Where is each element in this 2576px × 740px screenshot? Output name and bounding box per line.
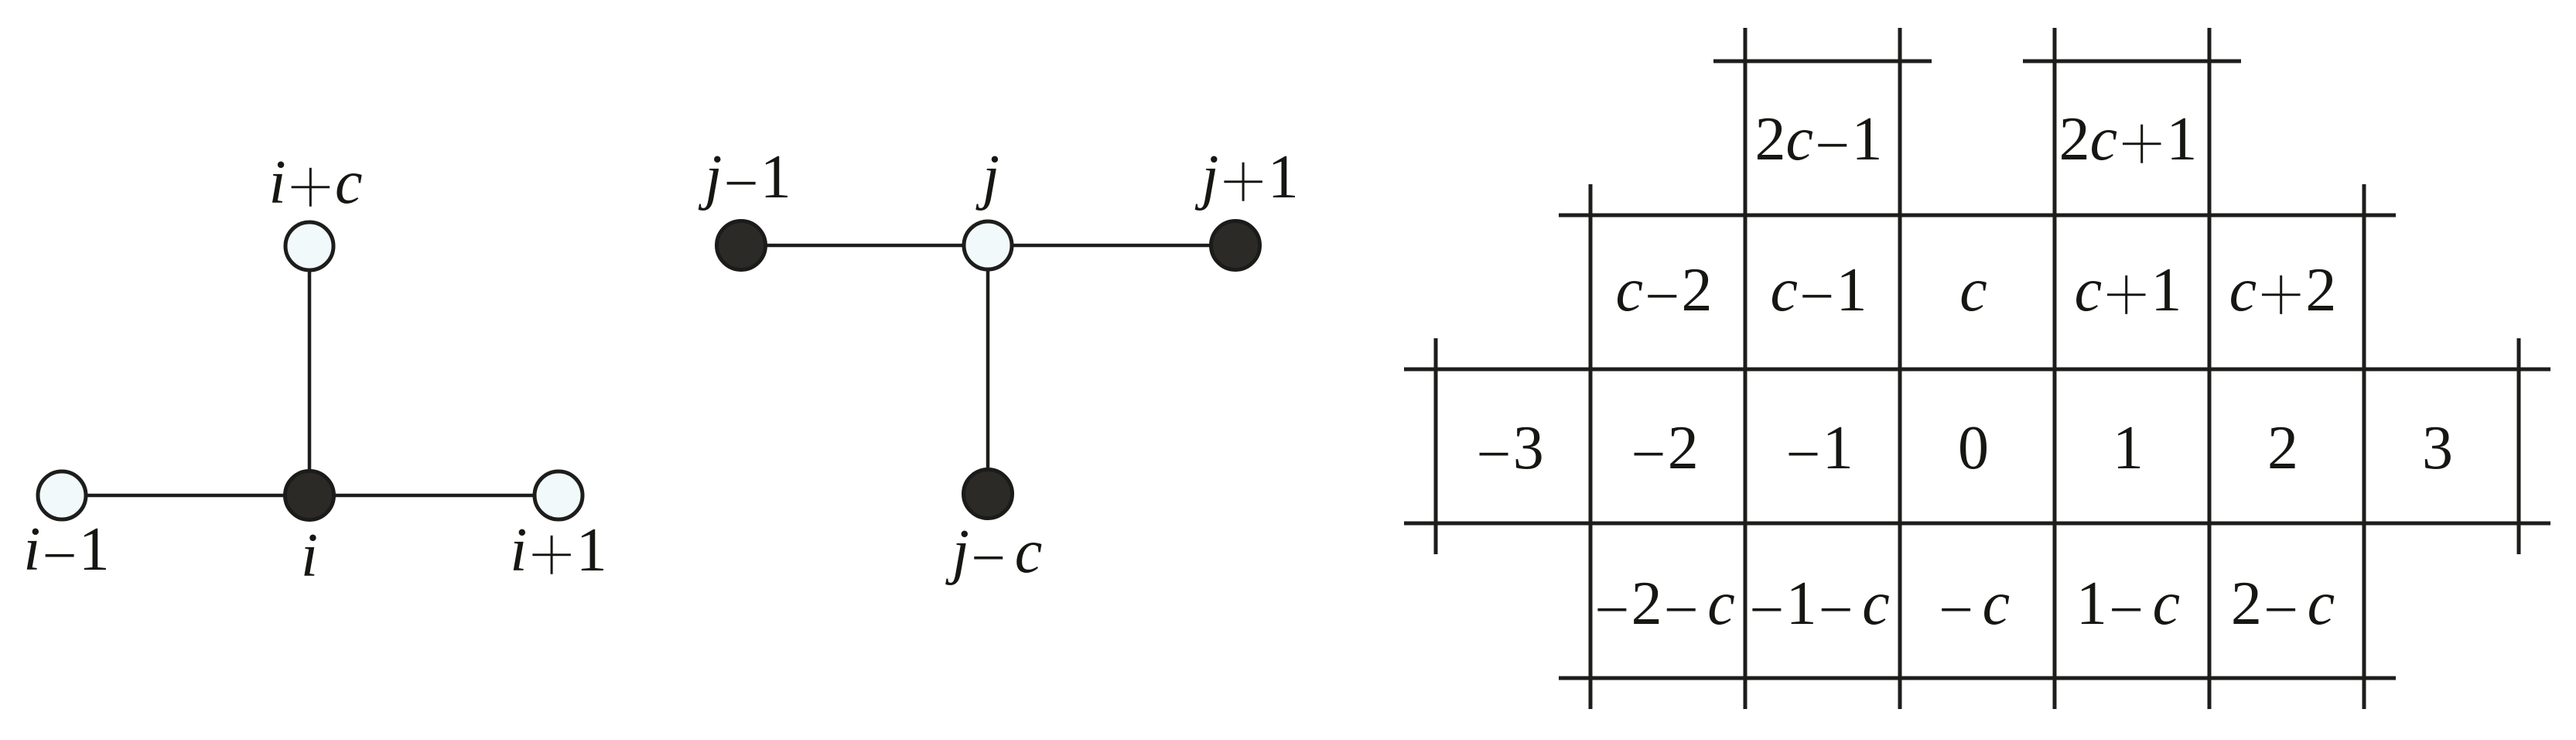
- svg-text:c – 2: c – 2: [1616, 256, 1713, 324]
- svg-text:c – 1: c – 1: [1771, 256, 1867, 324]
- svg-text:1 – c: 1 – c: [2076, 570, 2180, 638]
- svg-text:j – c: j – c: [945, 518, 1042, 586]
- svg-text:2: 2: [2267, 414, 2298, 482]
- svg-text:i: i: [301, 522, 318, 590]
- svg-text:2 – c: 2 – c: [2231, 570, 2335, 638]
- svg-text:– 1 – c: – 1 – c: [1748, 570, 1890, 638]
- svg-text:– 3: – 3: [1474, 414, 1543, 482]
- svg-text:c: c: [1959, 256, 1987, 324]
- svg-text:– 2 – c: – 2 – c: [1593, 570, 1735, 638]
- svg-text:– 1: – 1: [1784, 414, 1853, 482]
- svg-text:i – 1: i – 1: [23, 516, 110, 584]
- svg-text:0: 0: [1958, 414, 1989, 482]
- svg-text:1: 1: [2113, 414, 2144, 482]
- svg-text:– c: – c: [1937, 570, 2010, 638]
- svg-text:– 2: – 2: [1629, 414, 1698, 482]
- svg-text:j – 1: j – 1: [698, 143, 791, 211]
- svg-text:3: 3: [2422, 414, 2453, 482]
- svg-text:2c – 1: 2c – 1: [1755, 105, 1883, 173]
